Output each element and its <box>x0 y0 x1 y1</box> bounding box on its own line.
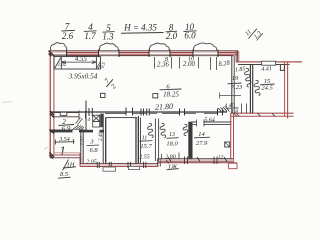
door swing squiggle room 13 <box>160 123 166 137</box>
ticks on wing bottom wall <box>234 104 275 117</box>
crossed vent box <box>93 115 100 121</box>
room 14 top wall <box>191 121 232 123</box>
header fraction 10/6.0 <box>184 22 197 41</box>
bottom outer wall right segment <box>158 159 237 163</box>
svg-text:H = 4.35: H = 4.35 <box>123 23 157 33</box>
short line near hall right bottom <box>220 95 242 97</box>
room 3 label 3/6.8 <box>87 139 100 155</box>
header fraction 8/2.0 <box>166 22 178 41</box>
svg-text:2.6: 2.6 <box>62 31 74 41</box>
svg-text:21.80: 21.80 <box>155 102 173 112</box>
label 1Ж with leader <box>166 160 179 171</box>
entrance porch 2 below wall <box>129 166 140 169</box>
rotated note 7/2 in hall <box>101 75 120 93</box>
faint speck near bottom-left corner <box>45 147 48 150</box>
window jamb ticks on top wall <box>67 50 219 58</box>
svg-text:1.8: 1.8 <box>231 109 238 115</box>
stairwell rectangle <box>106 118 137 164</box>
room 3 right wall <box>102 114 104 165</box>
faint pencil mark left margin <box>2 102 12 103</box>
svg-text:2.0: 2.0 <box>166 31 178 41</box>
ticks and hatch on right bottom wall <box>168 157 227 165</box>
bottom wall step up at x=158 <box>157 159 159 167</box>
svg-text:1.3: 1.3 <box>102 32 114 42</box>
door swing squiggle room 13 right <box>183 124 188 135</box>
room 2 top wall <box>54 111 86 119</box>
bottom outer wall left high segment <box>51 153 82 158</box>
room 1 right wall <box>80 130 82 164</box>
door swing squiggle in room 15 <box>254 80 260 95</box>
header height note H=4.35 underlined <box>121 23 164 34</box>
wing top wall <box>236 61 302 63</box>
header fraction 4/1.7 <box>84 22 97 41</box>
window in wing top wall <box>262 61 276 65</box>
svg-text:1.85: 1.85 <box>235 66 246 73</box>
svg-text:6.0: 6.0 <box>184 30 196 40</box>
wall between rooms 11 and 13 <box>154 119 156 161</box>
svg-text:4.41: 4.41 <box>261 65 272 73</box>
door swing squiggle room 11 <box>148 123 154 137</box>
header fraction 5/1.3 <box>102 23 114 42</box>
svg-text:2.00: 2.00 <box>183 61 195 68</box>
svg-text:14: 14 <box>198 131 205 138</box>
top outer wall: outer edge line <box>49 50 239 52</box>
svg-text:3.95х0.54: 3.95х0.54 <box>68 71 98 80</box>
hall label 6/18.25 <box>160 83 182 98</box>
step rect at bottom right junction <box>229 163 238 169</box>
wall between hall and room 19 <box>231 56 233 113</box>
top wall pier fills (red wall) <box>49 51 239 55</box>
step corner of top wall at x=237 <box>235 50 237 62</box>
svg-text:5.64: 5.64 <box>204 116 215 123</box>
window sill lines in top wall openings <box>53 52 218 54</box>
correction cloud 3 over window 3 <box>149 43 169 50</box>
svg-text:1: 1 <box>59 143 66 158</box>
wing right wall (red double) <box>284 62 286 116</box>
ticks crossing mid bottom wall <box>97 162 146 168</box>
svg-text:18.25: 18.25 <box>163 91 179 99</box>
bottom outer wall mid segment <box>80 164 159 167</box>
top wall inner edge line <box>53 55 234 57</box>
junction hatch near 4.40 label <box>218 107 230 113</box>
dimension extension ticks below windows 3 and 4 <box>155 57 217 70</box>
door swing squiggle in room 19 <box>245 68 251 87</box>
room 11 label 11/15.7 <box>140 136 153 150</box>
svg-text:7.23: 7.23 <box>231 84 243 91</box>
corridor wall (hall / south rooms boundary) <box>50 111 227 113</box>
small box under vent box <box>93 121 100 127</box>
svg-text:27.9: 27.9 <box>196 140 208 147</box>
svg-text:7: 7 <box>65 21 70 31</box>
svg-text:24.5: 24.5 <box>261 84 273 91</box>
room 11 left wall <box>138 116 140 164</box>
svg-text:6.8: 6.8 <box>89 147 98 154</box>
svg-text:4.55: 4.55 <box>75 56 87 63</box>
room 14 right wall (red) <box>230 113 232 163</box>
entrance porch 1 below wall <box>103 167 116 171</box>
svg-text:13: 13 <box>169 132 175 138</box>
label 1H/8.5 with leader <box>58 160 76 179</box>
svg-text:2.02: 2.02 <box>79 136 85 146</box>
column square right <box>153 94 158 98</box>
tick pairs on corridor wall <box>86 101 223 119</box>
room 14 label 14/27.9 <box>194 131 210 147</box>
bath cluster partition <box>85 114 87 131</box>
bottom wall step down at x=80 <box>80 153 83 167</box>
hatched strip wall <box>100 114 103 128</box>
pilaster at wing top-right corner <box>280 65 284 71</box>
wall between rooms 13 and 14 <box>188 122 192 161</box>
header fraction 7/2.6 <box>62 21 76 41</box>
wall junction hatch marks on left wall <box>49 51 55 159</box>
column square left <box>101 93 106 97</box>
room 2 label 2/6.9 <box>59 118 75 133</box>
correction cloud 4 over window 4 <box>193 43 216 51</box>
svg-text:1.7: 1.7 <box>84 31 96 41</box>
room 1 / room 2 dividing wall <box>50 130 83 133</box>
room 13 label 13/18.0 <box>166 132 178 147</box>
left outer wall (red double) <box>49 50 51 158</box>
svg-text:2.36: 2.36 <box>157 61 169 68</box>
room 15 label 15/24.5 <box>260 78 275 91</box>
room 19 label 19/7.23 <box>228 75 243 91</box>
svg-text:19: 19 <box>232 75 239 82</box>
svg-text:2.55: 2.55 <box>139 154 150 160</box>
door swing hatch into room 2 <box>72 125 84 131</box>
correction cloud 2 over window 2 <box>99 43 118 50</box>
correction cloud 1 over window 1 <box>50 43 66 51</box>
shop counter rectangle in hall with 4.55 dimension <box>54 56 107 69</box>
flue box in room 14 <box>225 142 230 147</box>
svg-text:18.0: 18.0 <box>166 140 178 147</box>
header fraction 11/1.3 diagonal <box>243 23 264 44</box>
svg-text:15.7: 15.7 <box>140 143 152 150</box>
partition between rooms 19 and 15 <box>249 65 251 114</box>
wing bottom wall (red double) <box>231 112 294 114</box>
